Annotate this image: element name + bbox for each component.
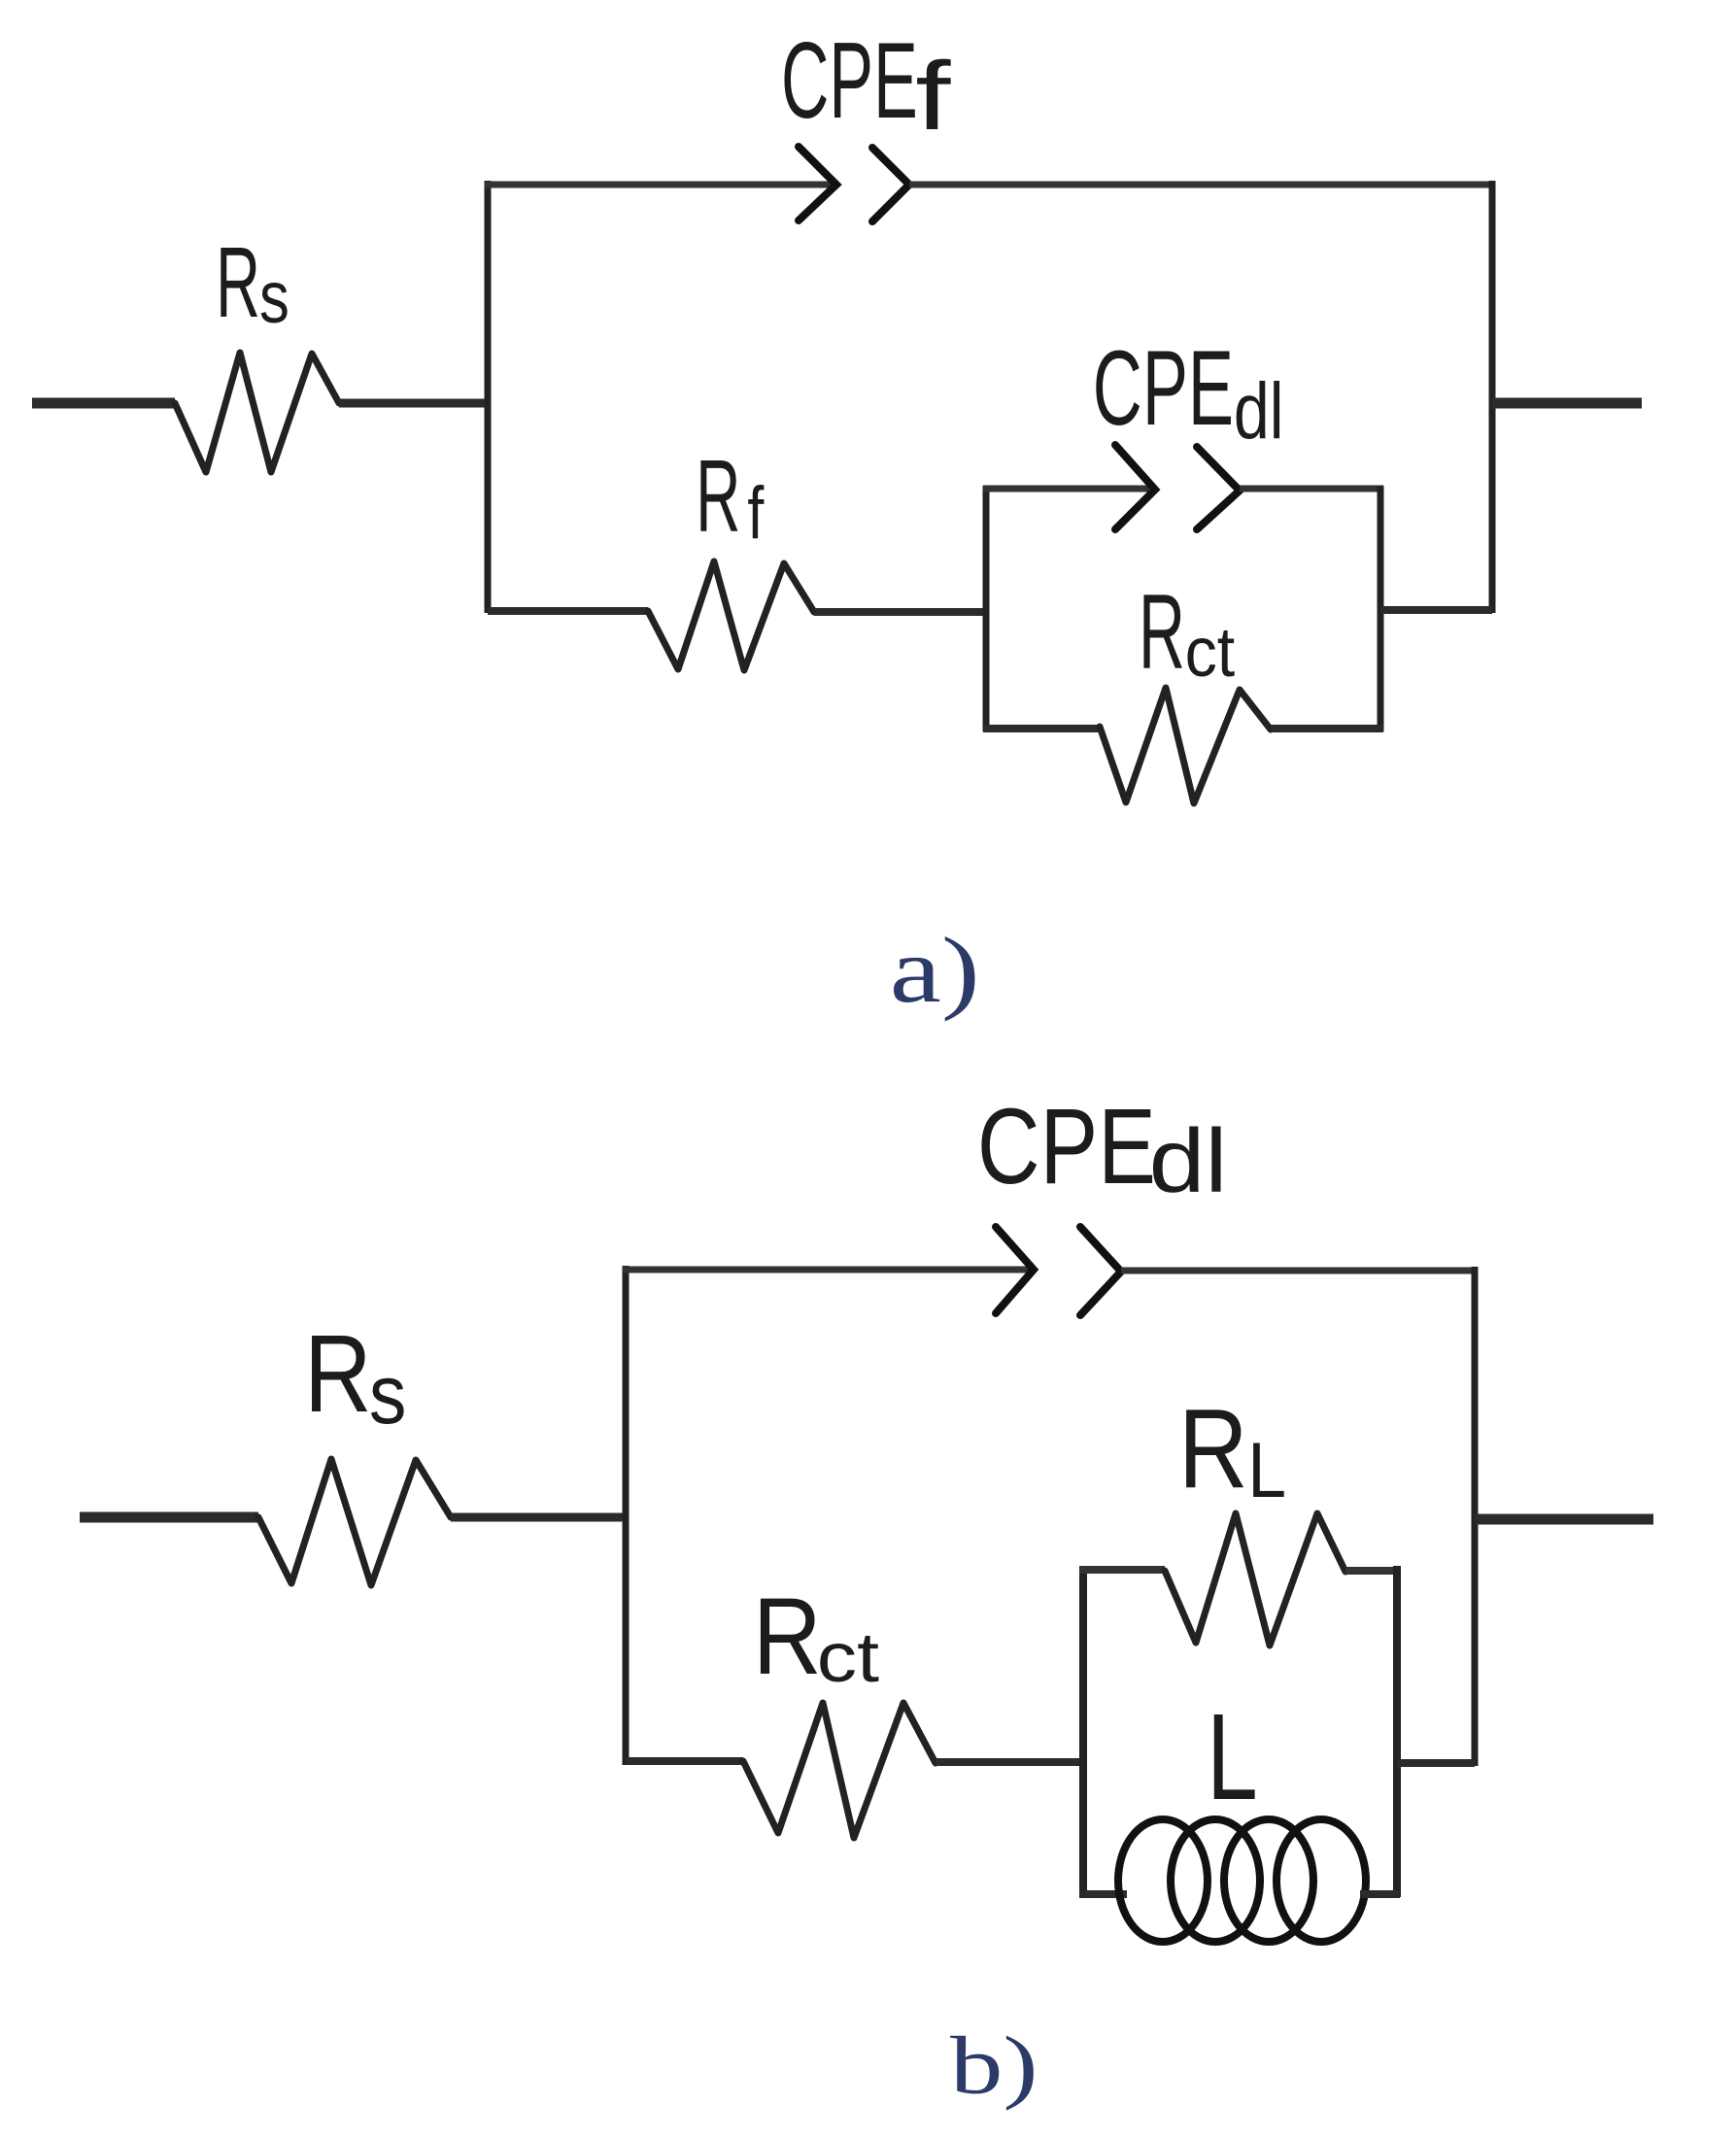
svg-text:s: s [259,255,289,339]
svg-text:CPE: CPE [1093,330,1234,448]
resistor Rs (circuit b) [258,1459,451,1585]
wire: inner box a top rail right [1240,486,1383,492]
label CPEdl (circuit b) [977,1087,1228,1211]
label Rf [696,438,765,554]
svg-text:R: R [696,438,740,554]
wire: circuit b bottom rail left [626,1757,743,1765]
resistor Rs (circuit a) [175,353,339,472]
wire: circuit b top rail (left part) [623,1267,1031,1273]
wire: Rs to node B [451,1513,626,1522]
wire: inner box a bottom rail right [1271,725,1383,732]
svg-text:R: R [1139,573,1185,692]
inductor L (four loops) [1118,1819,1366,1942]
wire: Rf to inner box (circuit a) [814,608,986,616]
wire: inner box a top rail left [983,486,1149,492]
resistor Rct (circuit a) [1100,688,1271,803]
wire: inner box b top rail right [1345,1567,1400,1575]
svg-text:CPE: CPE [781,19,918,141]
wire: circuit b left lead [80,1512,258,1523]
wire: inner box b to right vertical jumper [1397,1759,1475,1767]
svg-text:dl: dl [1234,366,1284,455]
wire: inner box b bottom rail right stub [1360,1890,1400,1898]
label L [1207,1688,1258,1825]
CPE_dl (circuit b, two chevrons) [996,1227,1121,1315]
label Rs (circuit b) [304,1313,406,1442]
resistor RL [1165,1513,1345,1646]
label a) [890,919,980,1022]
svg-text:L: L [1247,1427,1286,1514]
svg-text:CPE: CPE [977,1087,1156,1206]
wire: Rs to node A [339,399,488,408]
svg-text:R: R [1178,1385,1248,1511]
wire: circuit b right lead [1475,1514,1653,1525]
svg-text:f: f [747,471,765,554]
label CPEf [781,19,951,151]
wire: inner box b right vertical [1393,1566,1401,1897]
wire: inner box b left vertical [1079,1566,1087,1897]
svg-text:ct: ct [1185,612,1236,691]
svg-text:s: s [369,1348,407,1442]
svg-text:dl: dl [1149,1110,1228,1211]
resistor Rf [648,561,814,670]
wire: node A left vertical (circuit a) [485,181,492,613]
wire: circuit a right vertical [1489,181,1496,613]
wire: circuit a bottom rail left [488,607,648,615]
label Rct (circuit a) [1139,573,1235,692]
wire: inner box b bottom rail left stub [1079,1890,1127,1898]
wire: circuit a left lead [32,398,175,409]
wire: inner box a to right vertical jumper [1380,606,1492,614]
resistor Rct (circuit b) [743,1703,936,1838]
wire: Rct to inner box (circuit b) [936,1758,1083,1766]
label Rs (circuit a) [216,226,289,339]
wire: inner box a left vertical [983,486,990,731]
wire: circuit b right vertical [1472,1267,1479,1766]
svg-text:f: f [915,42,951,151]
label b) [950,2020,1038,2112]
wire: circuit a top rail (right part) [909,182,1495,188]
wire: circuit b top rail (right part) [1121,1268,1478,1274]
wire: circuit a top rail (left part) [485,182,834,188]
wire: circuit a right lead [1492,398,1642,409]
label CPEdl (circuit a) [1093,330,1284,456]
CPE_f (circuit a, two chevrons) [799,147,909,221]
wire: node B left vertical (circuit b) [623,1266,630,1765]
svg-text:a): a) [890,919,980,1022]
svg-text:R: R [753,1576,822,1698]
svg-text:L: L [1207,1688,1258,1825]
label Rct (circuit b) [753,1576,879,1698]
wire: inner box b top rail left [1079,1566,1165,1574]
label RL [1178,1385,1286,1515]
svg-text:ct: ct [817,1619,879,1697]
svg-text:R: R [304,1313,372,1436]
svg-text:b): b) [950,2020,1038,2112]
wire: inner box a bottom rail left [983,725,1100,732]
svg-text:R: R [216,226,260,339]
CPE_dl (circuit a, two chevrons) [1115,445,1240,529]
wire: inner box a right vertical [1378,486,1384,731]
